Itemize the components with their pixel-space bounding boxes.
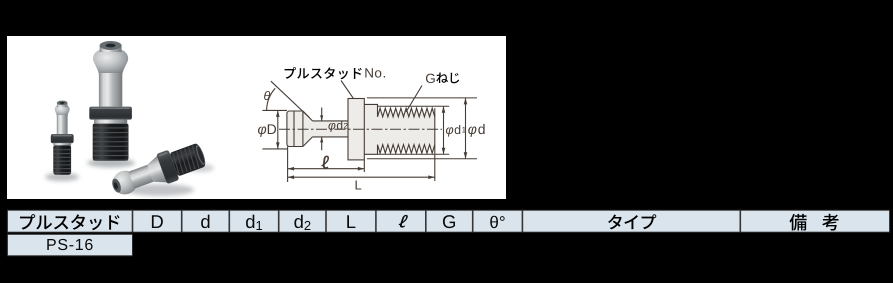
drawing: shoulder [364, 104, 377, 154]
table: header small-l [398, 215, 409, 228]
photo: lying stud neck [128, 165, 153, 189]
drawing: head cone [303, 111, 313, 147]
svg-text:L: L [346, 211, 356, 232]
drawing: label pull-stud-No [285, 67, 296, 79]
svg-text:φd: φd [468, 121, 487, 137]
drawing: dimension arrowheads [276, 110, 280, 117]
photo: stud thread [93, 124, 129, 161]
svg-text:d: d [200, 211, 210, 232]
photo: stud shaft [57, 115, 68, 134]
svg-text:G: G [425, 71, 436, 86]
svg-text:θ°: θ° [489, 213, 505, 232]
svg-text:PS-16: PS-16 [46, 237, 94, 254]
svg-text:D: D [150, 211, 163, 232]
drawing: phid1 extension lines [378, 106, 450, 154]
drawing: head outline [287, 111, 303, 147]
drawing: left extension line [287, 147, 289, 183]
svg-text:φd2: φd2 [328, 118, 349, 132]
drawing: phid extension lines [367, 98, 477, 159]
table: header pull-stud [20, 214, 35, 229]
drawing: phid dimension line [465, 98, 467, 159]
drawing: theta arc [267, 88, 276, 110]
photo: stud ball [93, 50, 128, 75]
drawing: l dimension line [288, 168, 365, 170]
photo: lying stud flange [156, 150, 179, 185]
drawing: label small-l [321, 156, 330, 169]
photo: stud flange [89, 107, 132, 120]
drawing: flange [348, 99, 364, 160]
drawing: thread-end extension line [434, 153, 436, 181]
table: header remarks [789, 214, 806, 231]
svg-text:No.: No. [364, 66, 387, 81]
table: column divider lines [132, 210, 134, 232]
drawing: L dimension line [288, 176, 435, 178]
drawing: head internal lines [294, 111, 303, 147]
white panel [7, 36, 506, 199]
drawing: flange-right extension line [363, 160, 365, 172]
photo: lying stud ball [109, 167, 141, 198]
photo: stud shaft [99, 73, 122, 107]
drawing: thread end face [434, 108, 436, 153]
drawing: stud filled profile [287, 99, 435, 160]
svg-text:L: L [355, 178, 362, 193]
drawing: thread zigzag top [378, 108, 435, 117]
photo: lying stud end face [192, 143, 207, 169]
photo: stud collar ring [94, 120, 127, 124]
photo: stud flange [51, 134, 74, 143]
drawing: neck [313, 121, 349, 137]
drawing: centerline [279, 128, 442, 130]
photo: large pull stud [89, 41, 132, 161]
drawing: phiD top extension line [262, 109, 287, 111]
svg-text:φD: φD [258, 121, 277, 137]
drawing: thread zigzag bottom [378, 145, 435, 154]
drawing: phid1 dimension line [443, 106, 445, 154]
drawing: phid2 dimension lines [321, 108, 323, 151]
drawing: theta cone extension line [271, 81, 310, 117]
drawing: phiD dimension line [277, 110, 279, 148]
table: header type [608, 214, 622, 229]
svg-text:θ: θ [264, 89, 271, 103]
photo: stud ball [55, 105, 70, 116]
photo: stud cap [57, 103, 68, 107]
svg-text:G: G [442, 211, 456, 232]
drawing: G-screw leader [406, 86, 422, 113]
photo: lying pull stud [107, 139, 208, 202]
table: header row background [7, 210, 889, 232]
photo: stud thread [53, 145, 71, 174]
photo: lying stud thread [170, 143, 206, 176]
photo: lying stud cone [146, 156, 167, 186]
photo: stud cap [100, 46, 122, 53]
photo: stud collar ring [53, 143, 71, 145]
drawing: pull-stud-No leader [341, 81, 353, 99]
photo: small pull stud [51, 101, 74, 175]
drawing: phiD bottom extension line [262, 148, 287, 150]
photo: soft shadows [45, 159, 214, 197]
table: row PS-16 cell [7, 234, 132, 256]
